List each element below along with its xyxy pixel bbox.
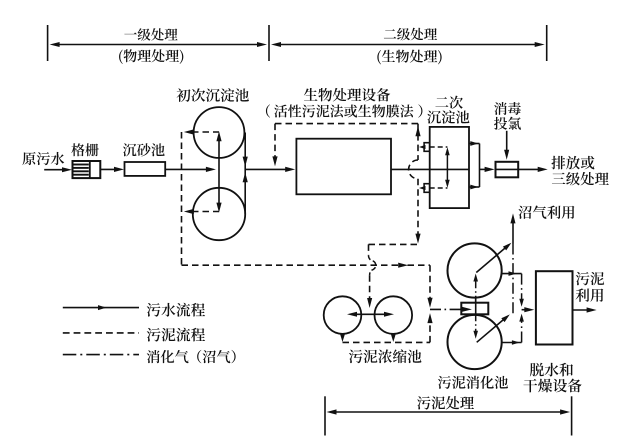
digester lower circle	[448, 315, 502, 369]
waste sludge dashed horizontal to thickener drop	[369, 243, 419, 245]
wire: grit chamber to primary tank arrow	[165, 168, 210, 170]
wire: primary tank to bio unit arrow	[245, 168, 289, 170]
thickener feed dashed vertical from primary line with down arrow	[429, 265, 431, 300]
label: biogas utilization	[518, 205, 574, 218]
label: biological treatment	[377, 50, 441, 65]
wire: raw sewage inflow arrow	[44, 169, 66, 171]
label: sedimentation tank (line 2)	[427, 110, 469, 123]
digester upper gas diagonal arrow	[476, 246, 507, 272]
label: sewage flow	[147, 303, 205, 317]
label: discharge or (line 1)	[551, 156, 594, 170]
label: disinfection (line 1)	[494, 102, 521, 115]
label: physical treatment	[119, 49, 183, 64]
label: tertiary treatment (line 2)	[552, 172, 609, 185]
digester center vertical through box	[475, 298, 477, 316]
wire: clarifier to chlorination arrow	[480, 168, 489, 170]
primary tank lower circle	[193, 188, 245, 240]
wire: bio unit to clarifier	[391, 168, 430, 170]
primary sludge dashed vertical	[181, 132, 183, 265]
wire: digested sludge into dewatering arrow	[522, 309, 527, 311]
label: sludge (line 1)	[576, 272, 604, 285]
thickener right circle	[375, 296, 413, 334]
primary tank upper circle	[194, 107, 245, 158]
label: secondary (line 1)	[435, 96, 462, 109]
legend: sludge flow dashed line	[63, 332, 139, 334]
label: primary sedimentation tank	[177, 88, 249, 102]
thickened sludge dashed bottom horizontal	[343, 341, 431, 343]
clarifier inner dashed upper horizontal	[430, 146, 448, 148]
biogas dash-dot vertical main	[512, 244, 514, 314]
wire: screen to grit chamber arrow	[100, 168, 118, 170]
legend: digester gas dash-dot line	[63, 354, 139, 356]
digester upper gas dash-dot with up arrow	[475, 280, 477, 303]
bar screen (grating) hatched box	[73, 161, 101, 178]
primary tank center vertical with up/down arrows	[218, 136, 220, 208]
label: grit chamber	[123, 143, 165, 156]
sludge treatment bracket tick right	[571, 396, 573, 435]
waste sludge dashed vertical down from clarifier	[417, 179, 419, 236]
stage bracket tick left	[47, 25, 49, 61]
thickener right underflow dashed arrow	[392, 334, 394, 338]
clarifier effluent bracket	[469, 143, 480, 145]
primary sludge draw-off lower dashed arrow	[192, 211, 219, 213]
digester upper circle	[448, 243, 502, 297]
clarifier inner vertical with up/down arrows	[446, 150, 448, 185]
label: utilization (line 2)	[576, 288, 604, 302]
label: sludge digester	[438, 376, 508, 389]
return sludge dashed top horizontal	[275, 123, 418, 125]
label: sludge treatment	[417, 396, 474, 409]
primary sludge draw-off upper dashed arrow	[192, 131, 219, 133]
legend: sewage flow solid arrow	[63, 307, 139, 309]
clarifier sludge tab upper	[424, 143, 430, 152]
secondary clarifier box	[430, 127, 469, 208]
label: digester gas (biogas)	[147, 350, 189, 363]
return sludge dashed left vertical arrow onto main line	[274, 124, 276, 159]
label: drying equipment (line 2)	[523, 379, 581, 393]
dewatering and drying equipment box	[536, 271, 573, 344]
label: chlorine dosing (line 2)	[494, 117, 521, 130]
primary sludge long dashed horizontal with arrow	[182, 264, 401, 266]
wire: effluent discharge arrow	[518, 168, 542, 170]
digester lower gas diagonal arrow	[477, 318, 506, 342]
wire: line through chlorination box	[496, 168, 519, 170]
stage bracket tick middle	[268, 25, 270, 61]
chlorination contact box	[496, 162, 519, 178]
label: dewatering (line 1)	[530, 363, 573, 377]
sludge treatment extent double arrow	[331, 411, 566, 413]
digester feed dash-dot arrow	[430, 308, 464, 310]
primary effluent collector vertical	[244, 133, 246, 215]
stage 1 extent arrow	[54, 44, 263, 46]
thickened sludge dashed vertical up arrow	[429, 320, 431, 342]
thickener left underflow dashed arrow	[342, 334, 344, 338]
label: activated sludge or biofilm process	[266, 104, 270, 117]
digested sludge right dash-dot up arrow	[521, 320, 523, 343]
wire: main line through clarifier	[430, 168, 469, 170]
sludge treatment bracket tick left	[324, 396, 326, 435]
wire: dried sludge utilization arrow	[573, 309, 591, 311]
waste sludge dashed vertical upper segment	[368, 244, 370, 255]
bio unit box	[296, 139, 391, 195]
digested sludge lower outlet arrow	[502, 342, 522, 344]
chlorine dosing arrow down	[506, 131, 508, 154]
thickener distribution double arrow	[352, 313, 389, 315]
waste sludge dashed vertical into thickener arrow	[369, 275, 371, 300]
digester connecting box	[461, 303, 488, 315]
thickener left circle	[324, 296, 362, 334]
label: secondary treatment	[384, 28, 437, 41]
digester lower feed dash-dot with down arrow	[475, 314, 477, 332]
label: primary treatment	[124, 28, 177, 41]
stage bracket tick right	[546, 25, 548, 61]
digested sludge upper outlet arrow	[502, 273, 522, 275]
grit chamber box	[125, 162, 166, 176]
biogas riser arrow to utilization	[512, 221, 514, 244]
clarifier inner dashed lower horizontal	[430, 187, 448, 189]
digested sludge right dash-dot down arrow	[521, 274, 523, 301]
label: sludge flow	[147, 328, 205, 342]
label: biological treatment equipment	[304, 88, 390, 102]
dashed hop over main line at clarifier inlet	[409, 160, 418, 179]
clarifier sludge tab lower	[424, 184, 430, 193]
label: sludge thickener	[349, 349, 422, 363]
dashed hop over primary sludge line	[369, 255, 376, 275]
label: raw sewage	[22, 152, 64, 165]
label: bar screen	[71, 143, 98, 156]
return sludge dashed right vertical with up arrow	[417, 124, 419, 160]
stage 2 extent arrow	[275, 44, 540, 46]
